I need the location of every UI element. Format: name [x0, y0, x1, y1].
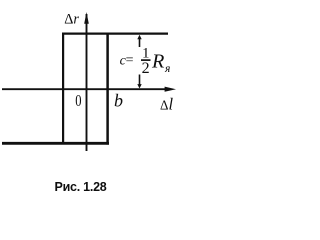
hysteresis top branch	[62, 32, 168, 34]
svg-text:Рис. 1.28: Рис. 1.28	[55, 180, 107, 194]
svg-text:Δl: Δl	[160, 95, 173, 114]
hysteresis left vertical	[62, 33, 64, 145]
dimension arrow down	[139, 75, 141, 86]
horizontal axis Δl	[2, 88, 167, 90]
hysteresis right vertical	[106, 33, 109, 145]
svg-text:R: R	[151, 51, 164, 73]
fraction bar	[141, 59, 151, 61]
vertical axis arrowhead	[84, 12, 89, 24]
hysteresis bottom branch	[2, 142, 109, 145]
dimension arrow up	[139, 39, 141, 48]
horizontal axis arrowhead	[165, 87, 176, 92]
svg-text:Δr: Δr	[64, 11, 79, 27]
svg-text:я: я	[164, 63, 170, 75]
svg-text:=: =	[126, 53, 134, 68]
svg-text:b: b	[114, 91, 123, 111]
svg-text:0: 0	[75, 92, 81, 110]
svg-text:2: 2	[142, 60, 150, 77]
vertical axis Δr	[86, 14, 88, 151]
